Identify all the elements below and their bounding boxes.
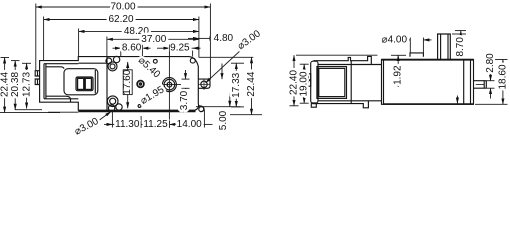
8.70 — [455, 30, 466, 32]
22.44 right — [199, 56, 254, 58]
3.70 flange thickness — [182, 78, 190, 80]
terminal bump 1 — [35, 71, 39, 76]
strap right edge — [350, 61, 352, 104]
brush block window — [76, 77, 93, 91]
armature capsule — [64, 69, 98, 95]
strap window — [317, 67, 347, 99]
can top/bottom — [318, 64, 382, 66]
20.38 — [11, 60, 20, 62]
can inner top line — [46, 67, 64, 69]
terminal bump 2 — [35, 79, 39, 85]
bottom dims 11.30/11.25/14.00 — [111, 112, 113, 128]
svg-text:9.25: 9.25 — [170, 43, 190, 54]
svg-text:5.00: 5.00 — [218, 110, 229, 130]
dim 62.20 — [44, 19, 199, 21]
dim 37.00 — [107, 38, 199, 40]
dim 8.60 outside arrows — [113, 47, 121, 49]
boxed 17.60 — [123, 70, 132, 95]
svg-text:62.20: 62.20 — [108, 14, 133, 25]
strap lower edge line — [78, 62, 107, 64]
bump inner line — [37, 71, 39, 76]
top-left cluster — [106, 58, 112, 64]
2.80 — [487, 80, 495, 82]
leader circle3.00 top — [206, 47, 245, 83]
output shaft circles — [162, 78, 176, 92]
17.33 — [231, 62, 244, 64]
corner hole bottom-right — [199, 107, 204, 112]
dim 48.20 — [79, 30, 199, 32]
svg-text:⌀4.00: ⌀4.00 — [382, 34, 408, 45]
flange hole — [201, 81, 207, 87]
flange top ref arrow — [221, 64, 223, 80]
flange tab right — [198, 79, 210, 88]
dim 4.80 — [188, 37, 199, 39]
corner hole top-right — [190, 58, 195, 63]
22.40 — [296, 54, 378, 56]
5.00 — [196, 106, 241, 108]
dia 4.00 — [407, 39, 411, 41]
svg-text:3.70: 3.70 — [179, 90, 190, 110]
1.92 — [391, 54, 406, 56]
down arrow near bottom — [456, 96, 458, 104]
svg-text:17.60: 17.60 — [122, 69, 133, 94]
svg-text:37.00: 37.00 — [141, 34, 166, 45]
svg-text:8.70: 8.70 — [455, 37, 466, 57]
bottom-right foot — [198, 106, 204, 112]
svg-text:70.00: 70.00 — [110, 2, 135, 13]
svg-text:22.44: 22.44 — [246, 71, 257, 96]
bottom edge thick band — [78, 110, 195, 112]
cap inner lip — [43, 64, 45, 99]
svg-text:2.80: 2.80 — [485, 53, 496, 73]
svg-text:8.60: 8.60 — [122, 43, 142, 54]
svg-text:22.44: 22.44 — [0, 72, 10, 97]
svg-text:11.30: 11.30 — [115, 119, 140, 130]
rear shaft nub — [474, 81, 487, 89]
strap bottom — [314, 101, 369, 108]
technical drawing: TT gear motor dimensions, two views — [0, 0, 510, 142]
tick marks redrawn over text halos — [141, 36, 210, 128]
svg-text:20.38: 20.38 — [10, 72, 21, 97]
svg-text:11.25: 11.25 — [143, 119, 168, 130]
19.00 — [300, 63, 309, 65]
dim 70.00 — [36, 6, 211, 8]
12.73 — [22, 62, 31, 64]
svg-text:17.33: 17.33 — [231, 72, 242, 97]
leader circle3.00 bottom — [98, 112, 112, 122]
can inner bottom line — [46, 96, 71, 102]
tiny hole top — [153, 59, 157, 63]
cap bottom clip — [311, 104, 316, 108]
svg-text:14.00: 14.00 — [177, 119, 202, 130]
gearbox seam — [106, 57, 108, 110]
motor body outline — [40, 57, 199, 111]
svg-text:12.73: 12.73 — [21, 72, 32, 97]
screw hole left of shaft — [137, 81, 144, 88]
tiny hole bottom — [138, 105, 141, 108]
svg-text:4.80: 4.80 — [214, 33, 234, 44]
output shaft (vertical) — [438, 34, 451, 60]
cap clip bumps — [308, 74, 310, 80]
svg-text:19.00: 19.00 — [299, 71, 310, 96]
svg-text:1.92: 1.92 — [393, 65, 404, 85]
dim 9.25 — [157, 47, 169, 49]
svg-text:18.60: 18.60 — [497, 64, 508, 89]
bottom-left cluster — [107, 96, 118, 107]
extension lines top — [35, 4, 37, 71]
bearing boss — [410, 53, 423, 57]
gearbox slab — [382, 60, 474, 105]
shaft centerline — [168, 46, 170, 128]
18.60 — [492, 59, 508, 61]
strap top — [314, 56, 372, 64]
end cap — [311, 61, 318, 103]
left dims: 22.44 — [1, 57, 10, 59]
